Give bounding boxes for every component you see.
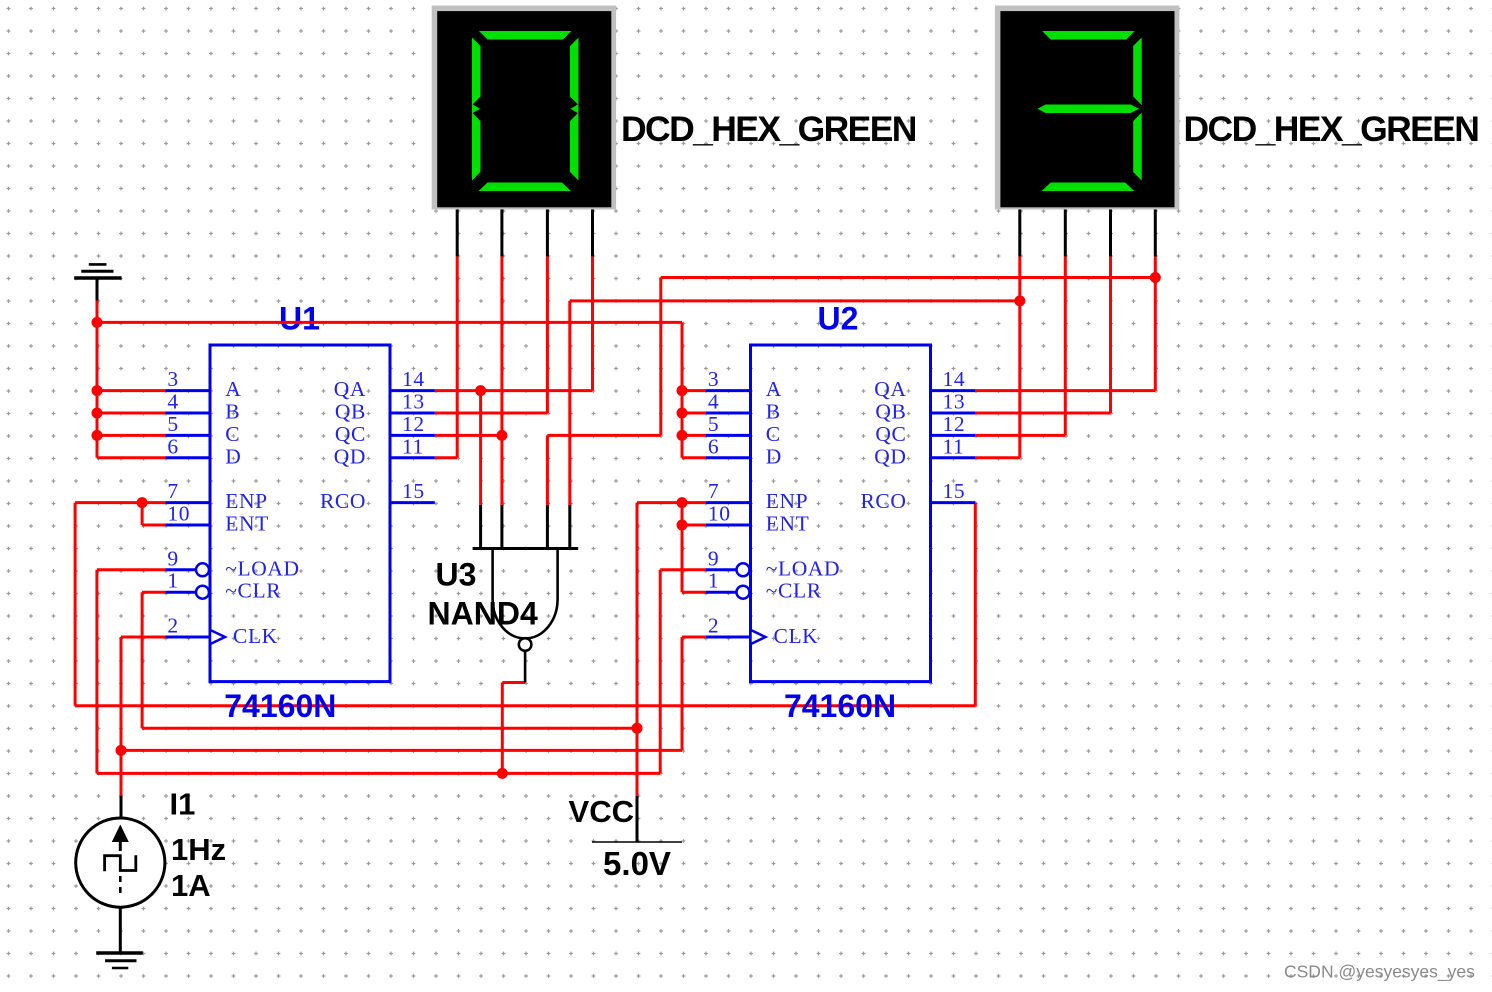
svg-text:U2: U2: [818, 301, 859, 337]
U3 input pin 2: [500, 505, 503, 549]
node VCC bus2: [632, 723, 643, 734]
U2 pin 2 stub (CLK): [706, 636, 751, 639]
U1 pin 13 stub (QB): [390, 412, 435, 415]
wire GND horizontal run to U2: [97, 321, 682, 324]
node QD2-NAND4: [1014, 295, 1025, 306]
svg-text:DCD_HEX_GREEN: DCD_HEX_GREEN: [1184, 109, 1479, 149]
U3 output pin: [524, 651, 527, 683]
wire U1 QA branch to NAND in1: [479, 391, 482, 505]
U2 pin 9 stub (~LOAD): [706, 568, 737, 571]
segment E: [472, 113, 481, 181]
segment B: [1133, 38, 1142, 106]
U1 pin 12 stub (QC): [390, 434, 435, 437]
svg-text:14: 14: [943, 367, 966, 391]
wire U1 LOAD drop: [97, 570, 165, 774]
node GND-stem junction: [92, 317, 103, 328]
svg-text:9: 9: [167, 546, 178, 570]
U1 pin 4 stub (B): [165, 412, 210, 415]
wire bus4 LOAD run: [97, 570, 706, 774]
svg-text:RCO: RCO: [320, 489, 366, 513]
svg-text:QB: QB: [335, 400, 366, 424]
svg-text:QA: QA: [874, 377, 906, 401]
U3 inverter bubble: [519, 638, 532, 651]
U3 input pin 4: [568, 505, 571, 549]
node NAND out on bus4: [497, 768, 508, 779]
wire ground stem to GND bus: [96, 301, 99, 458]
svg-text:11: 11: [402, 434, 424, 458]
U1 CLK edge triangle: [210, 630, 225, 644]
node U1-A gnd: [92, 385, 103, 396]
U1 ~LOAD bubble: [196, 563, 209, 576]
svg-text:12: 12: [402, 412, 425, 436]
node U2 ENT: [677, 520, 688, 531]
U2 pin 14 stub (QA): [931, 389, 976, 392]
svg-text:9: 9: [708, 546, 719, 570]
svg-text:10: 10: [708, 502, 731, 526]
svg-text:C: C: [766, 422, 781, 446]
svg-text:D: D: [225, 444, 241, 468]
U2 pin 6 stub (D): [706, 456, 751, 459]
svg-text:ENT: ENT: [766, 512, 810, 536]
I1 square wave glyph: [105, 855, 136, 871]
wire NAND output to bus4: [502, 683, 525, 774]
display2 pin 2: [1064, 210, 1067, 257]
U1 pin 11 stub (QD): [390, 456, 435, 459]
svg-text:~CLR: ~CLR: [766, 579, 822, 603]
svg-text:~CLR: ~CLR: [225, 579, 281, 603]
svg-text:B: B: [766, 400, 781, 424]
wire U1 QC to display1 pin2: [435, 256, 502, 435]
U1 pin 15 stub (RCO): [390, 501, 435, 504]
wire U2 ENP/ENT/CLR tie: [682, 503, 706, 593]
svg-text:1: 1: [167, 569, 178, 593]
wire U2 A input: [682, 389, 706, 392]
display2 pin 1: [1018, 210, 1021, 257]
svg-text:7: 7: [167, 479, 178, 503]
wire U1 C input to GND rail: [97, 434, 165, 437]
node U2-A gnd: [677, 385, 688, 396]
svg-text:D: D: [766, 444, 782, 468]
wire U1 QA to display1 pin4: [435, 256, 593, 390]
wire VCC riser: [637, 503, 706, 796]
U1 pin 5 stub (C): [165, 434, 210, 437]
svg-text:U3: U3: [436, 557, 477, 593]
segment D: [479, 183, 572, 192]
wire U2 GND drop: [681, 322, 684, 457]
I1 dashed lower shaft: [119, 876, 122, 897]
wire U1 A input to GND rail: [97, 389, 165, 392]
svg-text:ENP: ENP: [225, 489, 267, 513]
svg-text:5.0V: 5.0V: [603, 845, 671, 882]
display2 pin 3: [1109, 210, 1112, 257]
svg-text:VCC: VCC: [569, 794, 634, 829]
U2 pin 7 stub (ENP): [706, 501, 751, 504]
U3 AND body: [493, 549, 558, 639]
I1 arrow shaft: [119, 840, 122, 851]
node U1-C gnd: [92, 430, 103, 441]
svg-text:~LOAD: ~LOAD: [766, 556, 840, 580]
VCC stem: [636, 796, 639, 842]
display1 pin 3: [546, 210, 549, 257]
U1 pin 7 stub (ENP): [165, 501, 210, 504]
wire U1 QD to display1 pin1: [435, 256, 457, 457]
wire U1 B input to GND rail: [97, 412, 165, 415]
display1 pin 1: [456, 210, 459, 257]
display U4 DCD_HEX_GREEN frame: [432, 6, 616, 210]
svg-text:1A: 1A: [171, 868, 211, 903]
svg-text:10: 10: [167, 502, 190, 526]
svg-text:74160N: 74160N: [784, 688, 896, 724]
node U2-B gnd: [677, 408, 688, 419]
I1 arrow head: [112, 825, 129, 843]
svg-text:A: A: [766, 377, 782, 401]
U2 pin 12 stub (QC): [931, 434, 976, 437]
ground stem: [96, 278, 99, 301]
wire U2 B input: [682, 412, 706, 415]
U1 pin 2 stub (CLK): [165, 636, 210, 639]
svg-text:~LOAD: ~LOAD: [225, 556, 299, 580]
U1 ~CLR bubble: [196, 586, 209, 599]
svg-text:74160N: 74160N: [224, 688, 336, 724]
wire U1 D input to GND rail: [97, 456, 165, 459]
display1 pin 2: [500, 210, 503, 257]
svg-text:QC: QC: [335, 422, 366, 446]
svg-text:6: 6: [167, 434, 178, 458]
segment F/E mid tip: [472, 104, 480, 114]
wire U2 QC to display2 pin2: [975, 256, 1065, 435]
svg-text:13: 13: [943, 390, 966, 414]
svg-text:7: 7: [708, 479, 719, 503]
wire U1 ENP/ENT tie: [75, 503, 165, 525]
U2 ~CLR bubble: [737, 586, 750, 599]
svg-text:QD: QD: [334, 444, 366, 468]
svg-text:12: 12: [943, 412, 966, 436]
VCC bar: [592, 841, 682, 843]
ground wide bar: [96, 951, 143, 955]
svg-text:14: 14: [402, 367, 425, 391]
wire U2 QD branch to NAND in4: [570, 301, 1020, 505]
svg-text:CLK: CLK: [774, 624, 819, 648]
wire U2 D input: [682, 456, 706, 459]
svg-text:11: 11: [943, 434, 965, 458]
svg-text:3: 3: [167, 367, 178, 391]
display U5 DCD_HEX_GREEN frame: [995, 6, 1179, 210]
U2 ~LOAD bubble: [737, 563, 750, 576]
U1 pin 3 stub (A): [165, 389, 210, 392]
U3 top bar: [473, 547, 579, 550]
svg-text:5: 5: [708, 412, 719, 436]
svg-text:DCD_HEX_GREEN: DCD_HEX_GREEN: [621, 109, 916, 149]
U2 body: [751, 345, 931, 682]
svg-text:15: 15: [402, 479, 425, 503]
wire U1 QB to display1 pin3: [435, 256, 548, 413]
I1 bottom lead: [119, 907, 122, 953]
wire U2 QD to display2 pin1: [975, 256, 1020, 457]
U1 pin 1 stub (~CLR): [165, 591, 196, 594]
wire U2 QA to display2 pin4: [975, 256, 1155, 390]
svg-text:3: 3: [708, 367, 719, 391]
segment A: [1042, 31, 1135, 40]
svg-text:5: 5: [167, 412, 178, 436]
node U2 ENP: [677, 497, 688, 508]
svg-text:A: A: [225, 377, 241, 401]
node U1 ENP-ENT: [137, 497, 148, 508]
U1 pin 9 stub (~LOAD): [165, 568, 196, 571]
U2 pin 5 stub (C): [706, 434, 751, 437]
U3 input pin 3: [546, 505, 549, 549]
segment B: [570, 38, 579, 106]
wire I1 to CLK bus3: [120, 750, 123, 795]
node CLK I1 junction: [116, 745, 127, 756]
U2 pin 13 stub (QB): [931, 412, 976, 415]
ground mid bar: [81, 270, 113, 273]
svg-text:ENP: ENP: [766, 489, 808, 513]
ground small bar: [89, 263, 107, 266]
U2 CLK edge triangle: [751, 630, 766, 644]
wire VCC bus2 to U1 CLR: [142, 592, 637, 728]
segment A: [479, 31, 572, 40]
node U1-B gnd: [92, 408, 103, 419]
wire bus1 ENP/ENT to U2 RCO: [75, 503, 975, 706]
U2 pin 1 stub (~CLR): [706, 591, 737, 594]
U2 pin 11 stub (QD): [931, 456, 976, 459]
ground mid bar: [105, 959, 136, 962]
svg-text:1Hz: 1Hz: [171, 832, 226, 867]
U1 body: [210, 345, 390, 682]
U2 pin 3 stub (A): [706, 389, 751, 392]
node QA1-NAND1: [475, 385, 486, 396]
segment B/C mid tip: [571, 104, 579, 114]
U1 pin 10 stub (ENT): [165, 524, 210, 527]
display1 pin 4: [591, 210, 594, 257]
wire U1 QC branch to NAND in2: [500, 435, 503, 505]
svg-text:QA: QA: [334, 377, 366, 401]
svg-text:QC: QC: [875, 422, 906, 446]
U2 pin 4 stub (B): [706, 412, 751, 415]
svg-text:B: B: [225, 400, 240, 424]
segment F: [472, 38, 481, 106]
svg-text:4: 4: [708, 390, 719, 414]
U1 pin 6 stub (D): [165, 456, 210, 459]
U2 pin 10 stub (ENT): [706, 524, 751, 527]
svg-text:CSDN @yesyesyes_yes: CSDN @yesyesyes_yes: [1284, 962, 1475, 983]
svg-text:U1: U1: [279, 301, 320, 337]
svg-text:I1: I1: [170, 787, 196, 822]
node QC1-NAND2: [496, 430, 507, 441]
svg-text:RCO: RCO: [860, 489, 906, 513]
wire U1 ENP down to bus1: [74, 503, 77, 706]
svg-text:2: 2: [167, 614, 178, 638]
U1 pin 14 stub (QA): [390, 389, 435, 392]
svg-text:C: C: [225, 422, 240, 446]
ground wide bar: [74, 276, 121, 280]
svg-text:2: 2: [708, 614, 719, 638]
node U2-C gnd: [677, 430, 688, 441]
display2 pin 4: [1154, 210, 1157, 257]
U3 input pin 1: [479, 505, 482, 549]
U2 pin 15 stub (RCO): [931, 501, 976, 504]
segment D: [1042, 183, 1135, 192]
svg-text:1: 1: [708, 569, 719, 593]
svg-text:6: 6: [708, 434, 719, 458]
segment C: [1133, 113, 1142, 181]
I1 circle: [76, 818, 165, 907]
wire U1 CLK drop: [121, 637, 165, 750]
I1 top lead: [120, 796, 123, 818]
svg-text:QD: QD: [874, 444, 906, 468]
ground small bar: [112, 967, 128, 970]
svg-text:15: 15: [943, 479, 966, 503]
wire U2 C input: [682, 434, 706, 437]
wire U2 QB to display2 pin3: [975, 256, 1110, 413]
svg-text:4: 4: [167, 390, 178, 414]
wire U2 QA branch to NAND in3: [547, 278, 1155, 505]
wire bus3 CLK run: [121, 637, 706, 750]
svg-text:NAND4: NAND4: [428, 596, 538, 632]
node QA2-NAND3: [1150, 272, 1161, 283]
svg-text:CLK: CLK: [233, 624, 278, 648]
segment C: [570, 113, 579, 181]
svg-text:QB: QB: [875, 400, 906, 424]
svg-text:ENT: ENT: [225, 512, 269, 536]
svg-text:13: 13: [402, 390, 425, 414]
segment G: [1038, 105, 1140, 114]
